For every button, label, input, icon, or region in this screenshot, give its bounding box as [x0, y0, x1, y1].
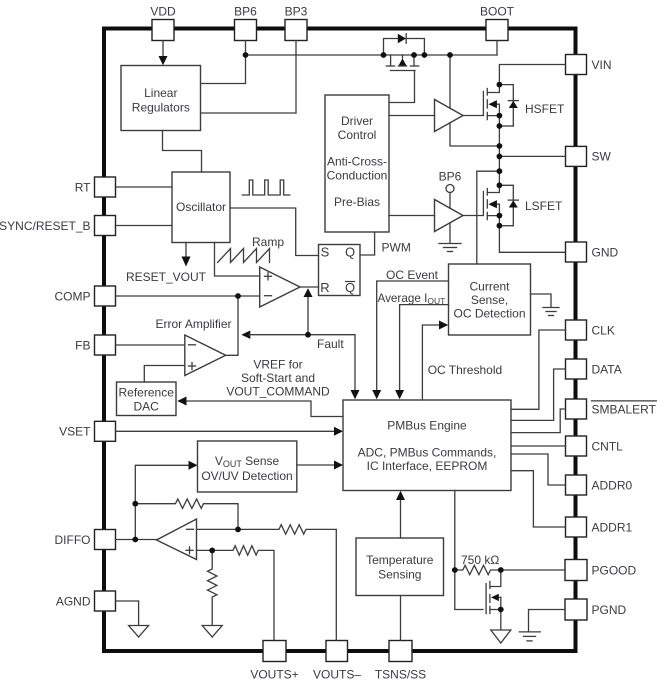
ground analog ground triangle under R4: [202, 626, 222, 638]
wire LSFET source to GND pin: [499, 216, 565, 253]
ground LS buffer ground: [439, 223, 461, 252]
svg-text:DIFFO: DIFFO: [55, 533, 91, 547]
node HSFET source junction: [497, 113, 503, 119]
svg-text:VOUTS–: VOUTS–: [313, 668, 361, 680]
node HS driver supply junction: [447, 52, 453, 58]
pin CLK: [566, 320, 615, 340]
wire VDD to Linear Regulators: [162, 41, 164, 59]
svg-text:Driver: Driver: [341, 114, 373, 128]
svg-text:ADDR1: ADDR1: [592, 520, 633, 534]
wire BOOT stub: [496, 41, 498, 56]
wire PGND pin to ground: [529, 610, 566, 632]
wire BP3 feed from Linear Regulators: [201, 41, 297, 114]
svg-text:CLK: CLK: [592, 323, 615, 337]
block Oscillator: [172, 172, 230, 243]
node HSFET body diode junction: [497, 123, 503, 129]
op-amp Error Amplifier triangle: [155, 317, 231, 376]
svg-text:Ramp: Ramp: [252, 235, 284, 249]
pin VOUTS-: [313, 641, 361, 680]
svg-text:Control: Control: [338, 128, 377, 142]
pin TSNS/SS: [375, 641, 426, 680]
svg-text:Anti-Cross-: Anti-Cross-: [327, 155, 387, 169]
waveform clock pulses: [242, 180, 289, 195]
svg-text:VIN: VIN: [592, 58, 612, 72]
pin DATA: [566, 359, 622, 379]
pin AGND: [56, 591, 116, 611]
svg-text:GND: GND: [592, 245, 619, 259]
wire PMBus to CNTL: [511, 445, 566, 447]
svg-text:RT: RT: [75, 180, 91, 194]
wire VOUT Sense output to PMBus Engine: [297, 461, 343, 470]
block PMBus Engine: [343, 400, 511, 491]
node Q2 source junction: [498, 607, 504, 613]
wire DIFFO pin to diff amp output: [116, 539, 157, 541]
svg-text:PGND: PGND: [592, 603, 627, 617]
svg-text:R: R: [320, 280, 329, 295]
svg-text:COMP: COMP: [55, 289, 91, 303]
svg-text:Fault: Fault: [317, 337, 344, 351]
IC boundary outer rectangle: [104, 29, 576, 652]
resistor R5 750 kOhm: [455, 553, 501, 575]
wire PMBus to SMBALERT: [511, 409, 566, 433]
svg-text:OV/UV Detection: OV/UV Detection: [201, 469, 292, 483]
waveform ramp sawtooth: [218, 235, 285, 263]
wire Reference DAC to Error Amplifier + input: [144, 366, 185, 383]
block Linear Regulators: [121, 66, 201, 131]
svg-text:LSFET: LSFET: [525, 199, 563, 213]
svg-text:ADDR0: ADDR0: [592, 478, 633, 492]
wire gate drive down to PGOOD FET gate: [455, 570, 483, 610]
svg-text:Linear: Linear: [144, 86, 177, 100]
buffer low-side gate driver triangle: [435, 200, 464, 232]
svg-text:VOUTS+: VOUTS+: [250, 668, 298, 680]
svg-text:CNTL: CNTL: [592, 439, 624, 453]
SR latch U-latch box: [319, 245, 361, 296]
wire PMBus to ADDR0: [511, 454, 566, 485]
pin PGND: [565, 599, 627, 620]
pin VSET: [59, 421, 115, 441]
svg-text:Soft-Start and: Soft-Start and: [241, 371, 315, 385]
block Current Sense, OC Detection: [449, 264, 531, 335]
svg-text:PWM: PWM: [382, 241, 411, 255]
ground Current Sense ground: [531, 294, 560, 316]
wire BP6/BOOT top rail: [246, 54, 498, 56]
wire LS buffer output to LSFET gate: [463, 215, 483, 217]
node diff amp - input junction: [235, 527, 241, 533]
svg-text:Q: Q: [345, 245, 355, 260]
node LSFET drain junction: [497, 182, 503, 188]
wire HS buffer output to HSFET gate: [463, 115, 483, 117]
svg-text:FB: FB: [75, 338, 90, 352]
svg-text:HSFET: HSFET: [525, 102, 565, 116]
node diode left junction: [381, 52, 387, 58]
svg-text:BOOT: BOOT: [480, 5, 515, 19]
node current sense tap junction: [497, 168, 503, 174]
svg-text:Sensing: Sensing: [378, 568, 421, 582]
node LSFET body diode junction: [497, 223, 503, 229]
transistor Q1 boot switch (horizontal FET): [386, 55, 418, 71]
svg-text:OC Detection: OC Detection: [453, 307, 525, 321]
resistor R4 to analog ground (diff amp + input): [208, 550, 217, 625]
comparator PWM comparator triangle: [260, 267, 300, 307]
node HSFET drain junction: [497, 82, 503, 88]
node diff amp + input junction: [209, 548, 215, 554]
wire Average IOUT from Current Sense to PMBus: [378, 292, 449, 399]
ground PGND ground symbol: [519, 632, 540, 641]
wire BP6 feed from Linear Regulators: [201, 55, 246, 84]
transistor HSFET: [483, 85, 565, 120]
node feedback resistor tap junction: [132, 501, 138, 507]
node Fault junction: [305, 332, 311, 338]
node 750k left junction: [452, 567, 458, 573]
wire PMBus to DATA: [511, 369, 566, 420]
svg-text:VREF for: VREF for: [253, 357, 302, 371]
node BP6 rail junction: [243, 52, 249, 58]
pin BOOT: [480, 5, 515, 41]
pin ADDR0: [566, 475, 633, 495]
svg-text:BP6: BP6: [234, 5, 257, 19]
svg-text:OC Event: OC Event: [386, 268, 439, 282]
svg-text:SYNC/RESET_B: SYNC/RESET_B: [0, 219, 91, 233]
svg-text:SMBALERT: SMBALERT: [592, 402, 657, 416]
pin GND: [566, 242, 619, 262]
svg-text:Conduction: Conduction: [327, 169, 388, 183]
svg-text:S: S: [321, 245, 330, 260]
svg-text:Current: Current: [469, 280, 510, 294]
pin COMP: [55, 286, 116, 306]
svg-text:Oscillator: Oscillator: [176, 200, 226, 214]
ground power ground triangle under Q2: [491, 630, 511, 643]
diode HSFET body diode: [499, 85, 518, 126]
svg-text:VSET: VSET: [59, 425, 91, 439]
wire HSFET source chain down to LSFET: [498, 116, 500, 186]
pin SW: [566, 146, 612, 166]
wire OC Event from latch area to Current Sense: [372, 268, 448, 399]
svg-text:BP3: BP3: [285, 5, 308, 19]
wire FB to Error Amplifier - input: [116, 344, 185, 346]
node DIFFO junction: [132, 537, 138, 543]
node LSFET source stub junction: [497, 213, 503, 219]
wire DIFFO node to VOUT Sense input: [135, 461, 197, 540]
svg-text:DAC: DAC: [134, 400, 160, 414]
node diode right junction: [422, 52, 428, 58]
pin VDD: [150, 5, 176, 41]
svg-text:IC Interface, EEPROM: IC Interface, EEPROM: [367, 459, 488, 473]
ground AGND triangle: [129, 626, 149, 638]
wire comparator output to latch R input: [300, 286, 319, 288]
wire OC Threshold from PMBus to Current Sense: [422, 321, 502, 401]
svg-text:TSNS/SS: TSNS/SS: [375, 668, 426, 680]
svg-text:VDD: VDD: [150, 5, 176, 19]
node COMP junction: [235, 293, 241, 299]
wire Oscillator ramp to comparator + input: [215, 243, 260, 277]
pin FB: [75, 335, 115, 355]
wire latch Q output to Driver Control (PWM): [360, 232, 411, 255]
pin ADDR1: [566, 517, 633, 537]
pin CNTL: [566, 436, 624, 456]
svg-text:Reference: Reference: [119, 386, 175, 400]
wire SW node to SW pin: [499, 155, 565, 157]
svg-text:DATA: DATA: [592, 362, 622, 376]
resistor R1 diff amp feedback: [135, 499, 238, 529]
wire Q1 gate to Driver Control: [389, 71, 415, 103]
wire PMBus to CLK: [511, 330, 566, 409]
transistor LSFET: [483, 185, 563, 219]
node HS driver return junction: [497, 143, 503, 149]
wire VSET to PMBus Engine: [116, 427, 344, 436]
wire TSNS/SS to Temperature Sensing: [400, 596, 402, 641]
wire PGOOD FET source to ground: [500, 610, 502, 631]
diode LSFET body diode: [499, 185, 518, 225]
wire PMBus to PGOOD pull-down gate: [454, 491, 456, 571]
block Driver Control / Anti-Cross-Conduction / Pre-Bias: [325, 95, 389, 232]
wire HS buffer return to SW node: [450, 123, 499, 146]
wire Oscillator clock to latch S input: [230, 208, 319, 256]
op-amp differential amplifier (points left): [157, 519, 197, 560]
pin SMBALERT (active low, overline): [566, 399, 657, 419]
wire VIN to HSFET drain: [499, 65, 565, 85]
block Temperature Sensing: [356, 538, 444, 596]
block VOUT Sense OV/UV Detection: [198, 441, 297, 492]
svg-text:Q: Q: [345, 280, 355, 295]
svg-text:Regulators: Regulators: [132, 101, 190, 115]
svg-text:PGOOD: PGOOD: [592, 563, 637, 577]
buffer high-side gate driver triangle: [435, 100, 464, 132]
svg-text:BP6: BP6: [439, 170, 462, 184]
wire SYNC/RESET_B to Oscillator: [116, 225, 173, 227]
svg-text:750 kΩ: 750 kΩ: [461, 553, 499, 567]
svg-text:RESET_VOUT: RESET_VOUT: [126, 270, 207, 284]
pin DIFFO: [55, 530, 116, 550]
pin BP3: [285, 5, 308, 41]
wire Temperature Sensing to PMBus Engine: [396, 491, 405, 538]
svg-text:SW: SW: [592, 150, 612, 164]
node Q1 source junction: [411, 52, 417, 58]
wire VREF for Soft-Start and VOUT_COMMAND (PMBus to DAC): [177, 357, 343, 416]
wire RT to Oscillator: [116, 186, 173, 188]
wire Driver Control to LS buffer input: [389, 215, 435, 217]
svg-text:Temperature: Temperature: [366, 553, 434, 567]
resistor R3 to VOUTS+ (diff amp + input): [197, 546, 275, 641]
svg-text:Sense,: Sense,: [471, 293, 508, 307]
svg-text:ADC, PMBus Commands,: ADC, PMBus Commands,: [358, 446, 497, 460]
wire BP6 stub down to rail: [245, 41, 247, 56]
pin PGOOD: [565, 560, 637, 581]
wire PGOOD node to PGOOD pin: [501, 569, 565, 571]
wire AGND pin to ground: [116, 601, 139, 626]
svg-text:Pre-Bias: Pre-Bias: [334, 195, 380, 209]
wire Driver Control to HS buffer input: [389, 115, 435, 117]
arrow VDD into Linear Regulators: [159, 56, 168, 65]
wire RESET_VOUT output arrow: [126, 243, 207, 285]
svg-text:OC Threshold: OC Threshold: [428, 363, 502, 377]
svg-text:VOUT_COMMAND: VOUT_COMMAND: [226, 385, 330, 399]
wire SW node tap to Current Sense: [477, 171, 500, 264]
node SW junction: [497, 154, 503, 160]
resistor R2 to VOUTS- (diff amp - input): [197, 525, 337, 641]
svg-text:AGND: AGND: [56, 594, 91, 608]
wire Fault net (to R input, to COMP node, to PMBus): [241, 288, 359, 399]
pin SYNC/RESET_B: [0, 216, 116, 236]
svg-text:PMBus Engine: PMBus Engine: [387, 419, 467, 433]
pin RT: [75, 177, 116, 197]
wire Error Amplifier output up to COMP line: [226, 296, 238, 355]
pin label BP6 internal terminal: [439, 170, 462, 209]
block Reference DAC: [117, 382, 177, 416]
wire rail tap to HS driver supply: [449, 55, 451, 108]
wire Linear Regulators to Oscillator: [163, 131, 202, 173]
pin VIN: [566, 55, 612, 75]
wire COMP to comparator - input: [116, 295, 260, 297]
wire PMBus to ADDR1: [511, 471, 566, 527]
transistor Q2 PGOOD pull-down FET: [486, 570, 501, 614]
pin VOUTS+: [250, 641, 298, 680]
node PGOOD junction: [498, 567, 504, 573]
svg-text:Error Amplifier: Error Amplifier: [155, 317, 231, 331]
diode D1 bootstrap loop: [384, 34, 425, 55]
pin BP6 (top): [234, 5, 257, 41]
